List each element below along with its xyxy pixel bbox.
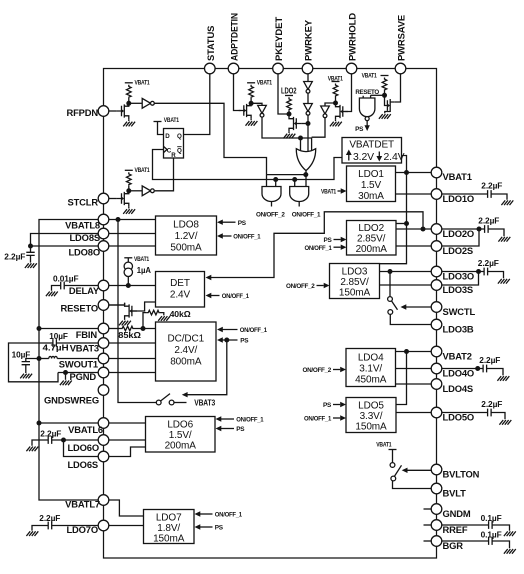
wire LDO2S external [442,229,479,246]
power VBAT1 tick Q2 [125,169,133,171]
power LDO2 tick [281,86,297,95]
wire VBATL8 row [109,219,156,221]
svg-text:BGR: BGR [443,540,464,551]
inverter INV2 [129,186,155,196]
box LDO6 [146,417,216,453]
wire RFPDN feed line [267,174,306,176]
ground C6 [26,531,38,536]
resistor R8 40k [143,310,164,328]
wire LDO8 ON/OFF_1 arrow [217,233,232,238]
svg-text:LDO2O: LDO2O [443,228,475,239]
pin PWRSAVE [395,15,406,74]
node FBIN bus [37,326,42,331]
power VBAT1 tick Q3 [247,82,255,84]
switch SW2 BVLT [390,450,401,481]
node PGND ground tap [63,370,68,375]
label VBATDET thresholds [346,150,405,163]
svg-text:PGND: PGND [70,371,97,382]
svg-text:LDO4S: LDO4S [443,383,474,394]
svg-text:PS: PS [324,237,332,244]
node DELAY junction [126,283,131,288]
svg-text:STCLR: STCLR [68,196,99,207]
wire LDO1O row [396,193,432,195]
node OR-RFPDN junction [303,172,308,177]
node LDO3O switch tap [388,269,393,274]
pin VBATL6 [68,418,109,435]
svg-text:2.4V: 2.4V [384,152,405,163]
svg-text:ON/OFF_2: ON/OFF_2 [303,367,332,374]
svg-text:ON/OFF_1: ON/OFF_1 [233,234,261,241]
wire LDO4S row [396,383,432,385]
wire gate2 left input [294,180,296,187]
pin LDO2S [431,241,473,256]
svg-text:ADPTDETIN: ADPTDETIN [229,13,240,61]
svg-text:2.2µF: 2.2µF [479,356,500,365]
svg-text:LDO5: LDO5 [358,400,384,411]
node SWOUT1 bus [37,356,42,361]
svg-text:VBATDET: VBATDET [349,140,394,151]
box LDO1 [347,166,396,202]
capacitor C12 0.1uF RREF [442,521,510,531]
wire LDO8S row [109,233,156,235]
ground C12 [504,531,516,536]
svg-text:LDO2: LDO2 [358,223,384,234]
pin VBAT1 [431,167,472,182]
svg-text:LDO2: LDO2 [281,86,297,95]
svg-text:ON/OFF_1: ON/OFF_1 [305,245,333,252]
wire FF R input [155,158,174,191]
svg-text:85kΩ: 85kΩ [118,331,141,340]
wire STCLR pin to Q2 gate [109,198,116,200]
svg-text:2.4V: 2.4V [170,290,191,301]
switch SW3 VBAT3 [156,394,174,405]
pin LDO3S [431,280,473,295]
svg-text:3.1V/: 3.1V/ [359,363,382,374]
svg-text:2.2µF: 2.2µF [478,259,499,268]
node VBAT1 bus [404,170,409,175]
svg-text:LDO7: LDO7 [156,512,182,523]
transistor Q1 RFPDN [116,103,128,121]
ground Q3 [246,121,258,126]
ground C10 [497,376,509,381]
pin RFPDN [66,106,108,118]
wire LDO5 ON/OFF_1 arrow [333,415,346,420]
wire LDO4 ON/OFF_2 arrow [333,367,346,372]
wire DCDC PS arrow [217,337,238,342]
wire LDO3S row [380,284,432,286]
svg-text:FBIN: FBIN [76,329,98,340]
wire PS to VBAT3 switch arrow [182,340,227,397]
resistor R5 pull-up PWRHOLD [333,84,338,104]
node VBATL8 bus tap [116,217,121,222]
wire LDO6S external [64,440,99,457]
svg-text:10µF: 10µF [12,350,31,359]
pin LDO6O [67,435,108,453]
IC boundary [104,69,437,559]
pin LDO3B [431,319,474,334]
gate G1 AND ON/OFF_2 [262,187,281,207]
ground Q4 [283,134,295,139]
svg-text:2.2µF: 2.2µF [478,216,499,225]
wire OR output [305,171,307,187]
pin BVLT [431,483,466,498]
svg-text:LDO1O: LDO1O [443,193,475,204]
node ONOFF2 tap [273,177,278,182]
wire INV1 out to gate G1 [154,103,266,174]
pin STCLR [68,193,109,207]
svg-text:PS: PS [238,220,246,227]
node Q3 drain [249,101,254,106]
resistor R3 pull-up [249,85,254,104]
capacitor C13 0.1uF BGR [442,537,510,548]
wire PS output arrow [364,121,369,131]
box LDO2 [347,221,397,256]
wire LDO6 PS arrow [216,426,235,431]
node LDO2 supply tap [404,221,409,226]
wire LDO7 ON/OFF_1 arrow [195,511,213,516]
ground C9 [498,279,510,284]
svg-text:LDO3: LDO3 [342,266,368,277]
pin STATUS [205,26,216,74]
ground C2 [46,292,58,297]
pin RREF [431,520,468,535]
ground PGND [60,373,72,386]
pin SWOUT1 [59,353,109,369]
svg-text:VBAT2: VBAT2 [443,350,472,361]
svg-text:30mA: 30mA [358,191,384,202]
svg-text:VBAT1: VBAT1 [257,80,273,87]
wire VBAT1 row [396,172,432,174]
resistor R4 LDO2 pull-up [287,97,292,114]
ground Q5 [330,122,342,127]
svg-text:VBAT1: VBAT1 [321,189,337,196]
svg-text:PWRHOLD: PWRHOLD [347,13,358,61]
gate U1 OR power-on [296,149,315,171]
node Q5 drain [333,101,338,106]
ground C7 [501,200,513,205]
wire VBATL7 elbow [109,500,144,516]
svg-text:150mA: 150mA [355,421,387,432]
wire gate1 left input from RFPDN [266,175,268,187]
svg-text:PS: PS [323,402,331,409]
ground C5 [26,447,38,452]
svg-text:ON/OFF_1: ON/OFF_1 [240,327,268,334]
svg-text:3.2V: 3.2V [353,152,374,163]
svg-text:LDO8O: LDO8O [68,247,100,258]
inductor L1 4.7uH [39,356,98,358]
svg-text:2.2µF: 2.2µF [4,252,25,261]
svg-text:DELAY: DELAY [69,285,100,296]
resistor R2 pull-up [127,172,132,191]
wire LDO2 supply from bus [396,223,407,225]
capacitor C9 2.2uF LDO3O [442,268,504,279]
svg-text:1.5V/: 1.5V/ [169,430,192,441]
svg-text:1µA: 1µA [137,266,151,275]
pin VBATL7 [65,495,109,510]
capacitor C2 0.01uF on DELAY [52,282,99,291]
svg-text:SWCTL: SWCTL [443,306,476,317]
pin PWRKEY [302,19,313,74]
svg-text:LDO8: LDO8 [173,220,199,231]
node C9 sense tap [476,269,481,274]
svg-text:VBATL6: VBATL6 [68,424,103,435]
capacitor C10 2.2uF LDO4O [442,365,503,376]
svg-text:3.3V/: 3.3V/ [360,411,383,422]
svg-text:500mA: 500mA [170,243,202,254]
svg-text:2.85V/: 2.85V/ [357,234,386,245]
node PKEYDET [287,112,292,117]
svg-text:2.85V/: 2.85V/ [340,277,369,288]
wire VBATL6 external [39,422,98,424]
svg-text:150mA: 150mA [339,287,371,298]
node LDO6O cap tap [61,438,66,443]
pin GNDSWREG [44,385,109,406]
wire PWRHOLD pin to Q5 gate [344,74,351,112]
svg-text:2.2µF: 2.2µF [481,181,502,190]
wire PWRSAVE pin to Q6 drain [395,74,401,102]
inverter INV4 PWRKEY [304,82,313,94]
svg-text:LDO6O: LDO6O [67,442,99,453]
wire node to NAND right input [371,94,385,96]
svg-text:1.8V/: 1.8V/ [157,523,180,534]
svg-text:STATUS: STATUS [205,26,216,61]
capacitor C5 2.2uF on LDO6O [32,436,98,446]
pin SWCTL [431,302,475,317]
svg-text:4.7µH: 4.7µH [43,343,70,352]
transistor Q2 STCLR [116,190,128,208]
wire RREF stub [424,524,432,526]
wire switch to VBAT3 label [174,402,187,404]
wire LDO2 PS arrow [334,237,347,242]
node PWRKEY gate junction [306,121,311,126]
wire RFPDN pin to Q1 gate [109,110,116,112]
svg-text:40kΩ: 40kΩ [170,310,191,319]
svg-text:LDO3O: LDO3O [443,270,475,281]
power VBAT1 tick SW2 [389,449,397,451]
svg-text:PWRKEY: PWRKEY [303,19,314,61]
transistor Q5 PWRHOLD [336,103,348,120]
svg-text:D: D [165,133,170,140]
wire VBATDET left output to logic line [153,150,343,180]
svg-text:ON/OFF_1: ON/OFF_1 [304,416,332,423]
wire DET to Q7 gate [132,302,156,311]
svg-text:ON/OFF_2: ON/OFF_2 [286,283,315,290]
wire LDO8 PS arrow [217,220,236,225]
node PS switch tap [224,338,229,343]
power VBAT1 tick Q1 [125,82,133,84]
svg-text:Q: Q [177,133,182,140]
svg-text:VBAT1: VBAT1 [362,72,378,79]
wire SWOUT1 row [109,358,156,360]
wire LDO7O row [109,525,144,527]
svg-text:200mA: 200mA [356,244,388,255]
svg-text:2.2µF: 2.2µF [40,430,61,439]
pin VBAT2 [431,346,472,361]
resistor R7 85k [121,326,156,331]
label FF Qbar [177,147,182,155]
pin LDO1O [431,189,474,204]
ground Q6 [379,114,391,119]
wire LDO2S row [396,245,431,247]
pin BGR [431,536,463,551]
node Q6 gate [382,93,387,98]
resistor R6 pull-up PWRSAVE [382,78,387,96]
wire VBAT2 row [396,351,432,353]
wire LDO6S row [109,447,146,457]
wire BVLTON arrow [402,468,431,473]
ground C4 [20,374,32,379]
wire Q7 drain-source [109,303,125,320]
svg-text:LDO4O: LDO4O [443,367,475,378]
capacitor C1 2.2uF [26,246,34,263]
box LDO3 [330,264,380,299]
box U5 DET [156,272,205,308]
node ADPTDETIN-OR junction [298,136,303,141]
wire LDO5O row [396,412,431,414]
capacitor C11 2.2uF LDO5O [442,409,505,420]
ground C13 [504,549,516,554]
svg-text:PKEYDET: PKEYDET [273,17,284,61]
svg-text:LDO3B: LDO3B [443,323,474,334]
wire external VBATL8 bus [39,220,98,501]
gate U2 NAND PS [359,95,375,120]
svg-text:GNDSWREG: GNDSWREG [44,395,99,406]
pin PKEYDET [273,17,284,74]
transistor Q3 ADPTDETIN [239,102,251,120]
svg-text:ON/OFF_2: ON/OFF_2 [256,212,285,219]
svg-text:VBAT3: VBAT3 [194,399,216,408]
wire BGR stub [424,540,432,542]
svg-text:800mA: 800mA [170,357,202,368]
node Q2 drain [126,188,131,193]
flip-flop U4 [164,129,184,159]
node FBIN divider [141,326,146,331]
svg-text:DET: DET [170,278,190,289]
transistor Q4 PKEYDET pulldown [289,115,301,132]
capacitor C4 10uF shunt [22,359,39,374]
wire PWRKEY pin to inverter chain [307,74,309,82]
svg-text:2.4V/: 2.4V/ [174,345,197,356]
wire FBIN row with 85k [109,328,121,330]
box LDO8 [156,216,217,255]
node Q1 drain [126,101,131,106]
svg-text:PS: PS [355,126,363,133]
wire INV5 to OR input [307,115,309,152]
pin LDO8O [68,241,108,258]
wire LDO3O row [380,271,432,273]
wire VBAT2 to LDO5 supply [396,352,407,405]
wire DCDC ON/OFF_1 arrow [217,327,238,332]
wire LDO3 ON/OFF_2 arrow [317,283,330,288]
wire INV4-INV5 [307,93,309,103]
wire LDO3S external [442,272,479,286]
svg-text:SWOUT1: SWOUT1 [59,358,98,369]
capacitor C6 2.2uF on LDO7O [32,522,98,531]
switch SW1 LDO3B [388,272,431,325]
svg-text:ON/OFF_1: ON/OFF_1 [292,212,321,219]
svg-text:BVLTON: BVLTON [443,468,480,479]
svg-text:200mA: 200mA [165,440,197,451]
ground C11 [499,420,511,425]
capacitor C3 10uF series on VBAT3 [9,339,99,382]
box U3 VBATDET [342,138,402,164]
capacitor C7 2.2uF LDO1O [442,190,507,200]
resistor R1 pull-up [127,85,132,104]
wire PGND external [58,372,98,374]
wire LDO8O row [109,245,156,247]
wire LDO4O row [396,368,432,370]
svg-text:Q: Q [177,148,182,155]
ground R8 [158,316,170,321]
gate G2 AND ON/OFF_1 [290,187,309,207]
node VBAT2 tap [404,349,409,354]
pin LDO5O [431,407,474,422]
pin LDO4O [431,363,474,378]
pin GNDM [431,504,471,519]
wire STATUS from flipflop Q [184,74,210,135]
power VBAT1 tick Q5 [332,81,340,83]
node LDO8 cap [28,244,33,249]
capacitor C8 2.2uF LDO2O [442,225,504,236]
pin VBATL8 [65,214,109,230]
ground C8 [498,237,510,242]
svg-text:RESETO: RESETO [61,302,98,313]
wire LDO2 ON/OFF_1 arrow [334,245,347,250]
wire FBIN external [39,328,98,330]
svg-text:150mA: 150mA [153,533,185,544]
svg-text:LDO3S: LDO3S [443,284,474,295]
inverter INV1 [129,98,155,108]
ground Q7 [119,321,131,326]
ground Q1 [123,122,135,127]
svg-text:LDO6: LDO6 [167,419,193,430]
pin LDO8S [69,228,108,243]
wire INV3 out to OR input [262,117,312,151]
svg-text:LDO8S: LDO8S [69,232,100,243]
svg-text:LDO5O: LDO5O [443,411,475,422]
wire DET sense from LDO2O [206,212,424,280]
svg-text:RFPDN: RFPDN [66,107,98,118]
svg-text:BVLT: BVLT [443,487,467,498]
wire BVLT row [393,481,432,489]
svg-text:VBAT1: VBAT1 [135,80,151,87]
pin BVLTON [431,464,479,479]
box LDO5 [346,398,396,433]
svg-text:VBAT1: VBAT1 [134,256,150,263]
wire OR input stub A [300,138,302,152]
pin LDO3O [431,266,474,281]
svg-text:VBAT3: VBAT3 [70,342,99,353]
node VBATL6 bus [37,421,42,426]
pin FBIN [76,323,109,340]
node C8 sense tap [477,227,482,232]
box LDO7 [144,510,195,544]
wire VBATL6 row [109,422,146,424]
wire LDO5 PS arrow [333,402,346,407]
svg-text:0.01µF: 0.01µF [53,275,79,284]
wire LDO6O row [109,439,146,441]
wire LDO8O external [31,245,99,247]
power VBAT1 tick FF D [154,122,164,135]
wire LDO8S external [31,234,99,247]
pin PWRHOLD [346,13,357,74]
power VBAT1 tick Q6 [381,75,389,77]
svg-text:VBAT1: VBAT1 [328,75,344,82]
svg-text:VBATL8: VBATL8 [65,219,100,230]
svg-text:LDO2S: LDO2S [443,245,474,256]
pin LDO6S [67,451,108,470]
svg-text:450mA: 450mA [355,374,387,385]
